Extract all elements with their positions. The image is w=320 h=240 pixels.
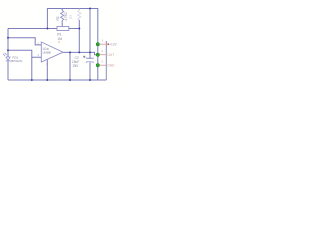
wire op-amp pin3 input	[8, 50, 41, 57]
wire op-amp pin2 input	[8, 38, 41, 45]
resistor R3	[78, 10, 81, 20]
node gnd 1	[31, 79, 33, 81]
wire pin3 ground drop	[31, 57, 33, 80]
svg-text:25V: 25V	[73, 64, 80, 68]
node gnd 2	[46, 79, 48, 81]
connector pin line 3	[100, 64, 107, 66]
node output x90	[89, 51, 91, 53]
wire feedback top	[8, 28, 79, 30]
wire right vertical	[89, 9, 91, 81]
power arrow +12V	[107, 43, 109, 45]
wire R2 top stub	[61, 9, 63, 11]
svg-text:1: 1	[101, 39, 103, 43]
LED pin circle 3	[96, 64, 99, 67]
node gnd 3	[69, 79, 71, 81]
wire feedback drop	[78, 29, 80, 53]
LED pin circle 1	[96, 43, 99, 46]
wire top loop	[47, 9, 97, 81]
connector X1 left edge	[105, 41, 107, 80]
wire bottom rail	[8, 79, 106, 81]
node C2 top	[69, 51, 71, 53]
svg-text:(BPW24): (BPW24)	[10, 59, 22, 63]
op-amp U1 triangle	[41, 42, 63, 62]
svg-text:OUT: OUT	[107, 53, 114, 57]
svg-text:+12V: +12V	[109, 43, 117, 47]
resistor R3 top stub	[78, 9, 80, 11]
resistor R2	[61, 11, 64, 21]
svg-text:3: 3	[37, 53, 39, 57]
node feedback mid	[78, 28, 80, 30]
svg-text:3: 3	[101, 60, 103, 64]
svg-text:R2: R2	[56, 16, 60, 20]
svg-text:R1: R1	[57, 32, 61, 36]
node wire1 tap	[46, 28, 48, 30]
connector pin line 1	[100, 43, 107, 45]
node top right	[89, 8, 91, 10]
wire R3 bottom stub	[78, 20, 80, 29]
svg-text:LM358: LM358	[43, 51, 52, 55]
wire left rail	[7, 29, 9, 81]
node feedback out	[78, 51, 80, 53]
svg-text:4.7K0: 4.7K0	[64, 12, 68, 21]
LED pin circle 2	[96, 53, 99, 56]
connector pin line 2	[100, 54, 107, 56]
svg-text:2: 2	[101, 49, 103, 53]
node pin3 tap	[7, 49, 9, 51]
wire R2 bottom stub	[61, 21, 63, 27]
photodiode FD1	[3, 53, 10, 61]
wire op-amp output	[63, 52, 96, 54]
wire op-amp pin4 ground	[46, 59, 48, 80]
capacitor C2	[86, 58, 94, 62]
capacitor C2 plus sign	[83, 56, 85, 58]
svg-text:GND: GND	[107, 64, 115, 68]
junction dots	[7, 8, 91, 82]
wire C2 branch	[69, 52, 71, 80]
node pin2 tap	[7, 37, 9, 39]
svg-text:R3: R3	[69, 15, 73, 19]
node gnd 4	[89, 79, 91, 81]
resistor R1 box	[57, 27, 69, 31]
